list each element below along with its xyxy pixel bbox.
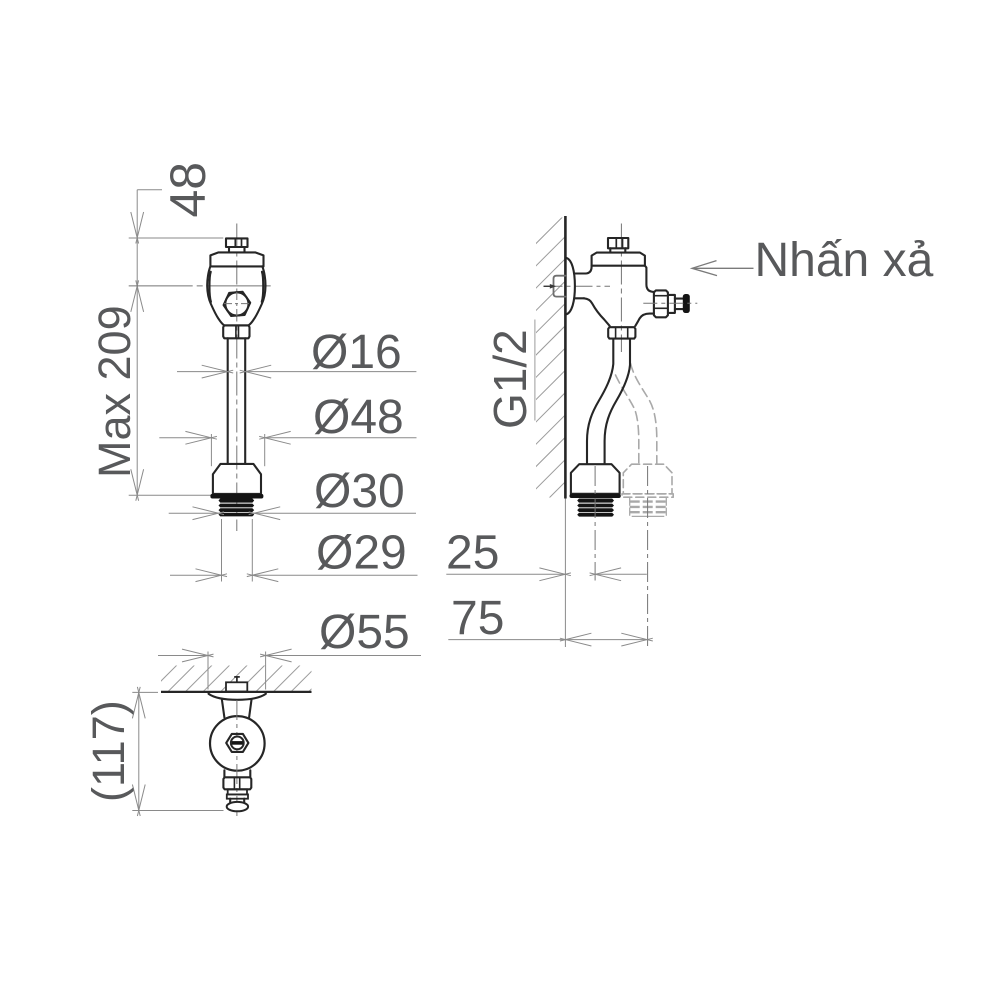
valve cap front [210,252,263,266]
spout step bottom view [228,789,247,794]
crosshair screw circle [224,303,251,305]
dimension diameter 55 [207,652,209,690]
spout center line side view [643,302,697,304]
lower neck bottom view [224,770,250,777]
flow arrow inlet [550,284,557,289]
screw circle on head front [225,292,248,315]
center line bottom view [236,700,238,817]
svg-text:48: 48 [160,162,216,218]
dimension diameter 48 [210,434,212,466]
push button side [608,238,628,248]
outlet flange front [210,494,263,499]
outlet thread side view [577,499,614,503]
outlet thread front [219,499,255,503]
valve cap side [592,253,645,266]
extension line button top [129,237,224,239]
hatch wall side view [535,214,566,513]
svg-text:25: 25 [446,526,499,579]
dimension Max 209 [131,469,139,501]
outlet coupling front [213,464,261,494]
svg-text:Ø48: Ø48 [313,391,404,444]
wall extension line below [564,499,566,648]
lower hex section front [223,325,249,338]
escutcheon side view [566,258,575,315]
wall line side view [564,216,567,499]
center line front view vertical [236,224,238,532]
button neck front [229,247,245,252]
spout nut side view [654,290,668,317]
center line side view vertical [620,224,622,353]
valve head body front [207,266,265,325]
hex nut bottom view [226,734,248,752]
head bulge lens right [262,272,263,302]
hex nut on head front [224,292,251,316]
spout collar side view [668,295,675,313]
extension line mounting face [129,494,212,496]
head bulge lens left [209,272,210,302]
outlet flange side view [570,494,621,498]
valve ball circle bottom view [210,716,265,771]
ghost outlet coupling side view [623,464,672,494]
escutcheon flange bottom view [209,693,266,700]
inlet pipe in wall side view [554,276,566,297]
svg-text:Ø16: Ø16 [311,326,402,379]
ghost center line [647,466,649,647]
ghost supply pipe side view [616,375,639,464]
button neck side [610,248,625,252]
ghost outlet flange side view [622,494,673,497]
svg-text:G1/2: G1/2 [484,329,536,429]
dimension diameter 30 [169,512,219,514]
svg-text:Nhấn xả: Nhấn xả [755,234,934,287]
outlet coupling side view [571,464,620,494]
adjuster pin bottom view [234,676,240,678]
dimension 25 [446,573,565,575]
ghost outlet thread side view [630,500,667,502]
svg-text:75: 75 [451,592,504,645]
push button front [226,238,248,247]
dimension 75 [448,639,647,641]
inlet center line side view [545,285,611,287]
center line outlet side view [594,466,596,581]
annotation arrow Nhan xa [694,267,754,269]
valve body side view [575,274,586,299]
dimension diameter 29 [170,574,222,576]
spout tube bottom view [230,799,244,805]
neck bottom view [222,700,252,718]
dimension 48 [137,189,162,191]
spout flange bottom view [227,794,248,798]
hatch ceiling bottom view [150,664,354,692]
dimension diameter 16 [177,371,228,373]
lower hex nut bottom view [223,777,251,789]
top nut bottom view [226,682,247,691]
extension lines diameter 29 [221,519,223,582]
spout tip cap bottom view [227,802,248,811]
screw circle bottom view [231,737,244,750]
supply pipe side view [587,339,613,464]
screw slot bottom view [232,741,243,745]
svg-text:Ø55: Ø55 [319,606,410,659]
center line inlet axis horizontal [129,285,271,287]
svg-text:Ø29: Ø29 [316,527,407,580]
svg-text:(117): (117) [83,700,134,802]
lower hex side view [608,327,635,338]
push rod end cap side view [683,294,690,313]
ceiling line bottom view [161,691,312,693]
supply tube front [228,338,246,464]
push rod side view [675,299,683,310]
svg-text:Max 209: Max 209 [89,305,140,478]
svg-text:Ø30: Ø30 [314,465,405,518]
dimension 117 [132,691,158,693]
G1/2 extent line [534,320,536,421]
